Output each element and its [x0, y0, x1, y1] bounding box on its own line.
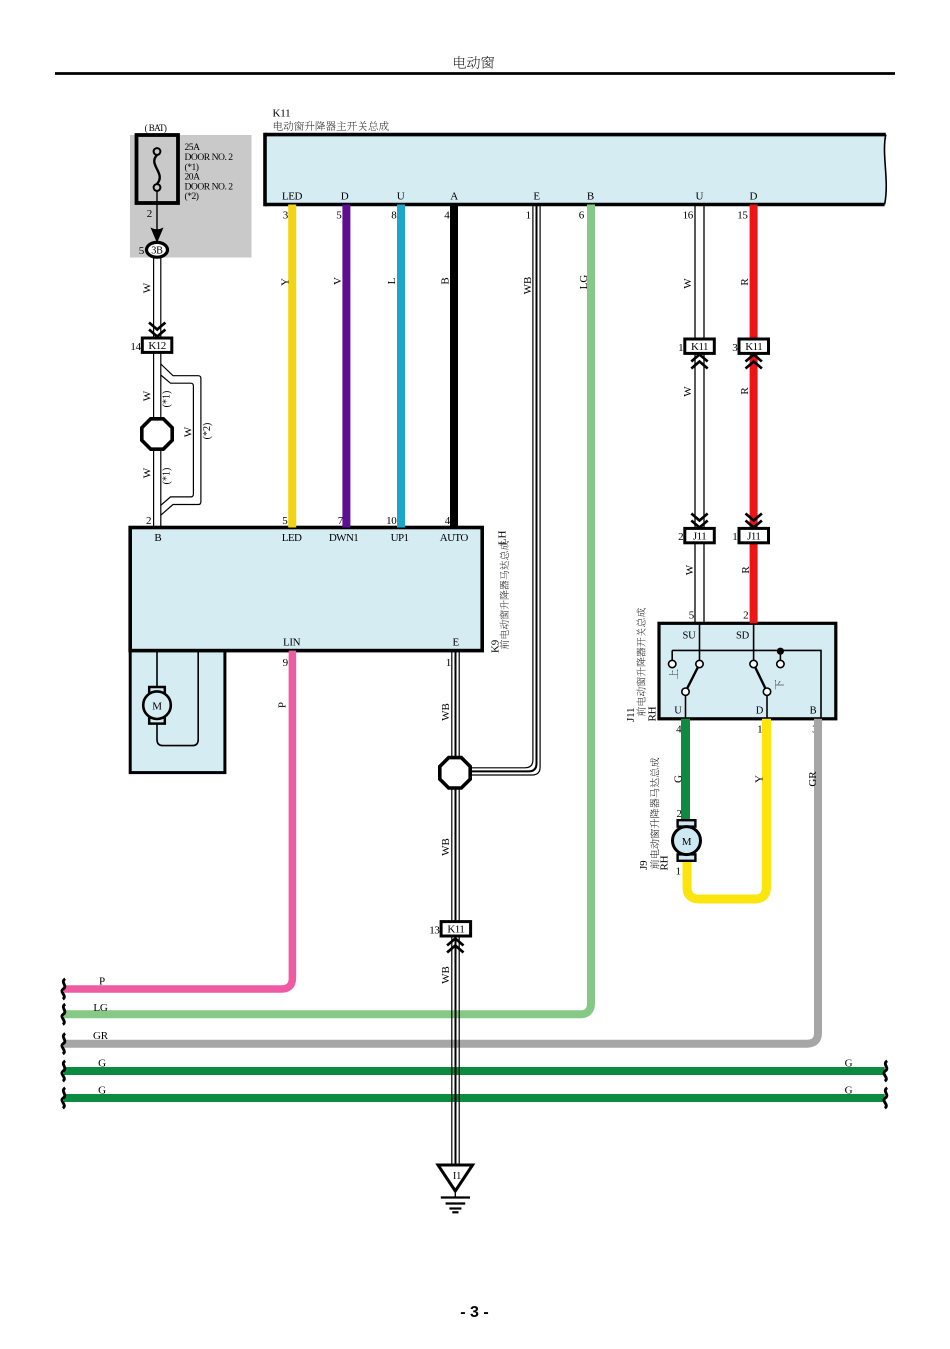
svg-text:SD: SD [736, 631, 750, 642]
svg-text:1: 1 [446, 657, 451, 669]
svg-text:13: 13 [429, 924, 440, 936]
svg-text:J11: J11 [625, 708, 637, 722]
svg-text:B: B [810, 706, 817, 717]
contact [750, 660, 757, 667]
svg-text:16: 16 [683, 210, 694, 222]
svg-text:- 3 -: - 3 - [460, 1304, 488, 1321]
svg-text:3B: 3B [151, 245, 163, 256]
D line [766, 692, 768, 719]
wire WB main vertical [451, 651, 453, 1165]
title 电动窗 [454, 56, 494, 69]
svg-text:(*2): (*2) [202, 423, 213, 440]
svg-text:L: L [386, 277, 398, 284]
SU line [699, 623, 701, 664]
svg-text:GR: GR [93, 1030, 109, 1042]
svg-text:3: 3 [732, 342, 738, 354]
wire GR [64, 719, 818, 1044]
svg-text:Y: Y [753, 775, 765, 783]
svg-text:(*1): (*1) [162, 391, 173, 408]
svg-text:K11: K11 [273, 108, 291, 120]
svg-text:D: D [756, 706, 764, 717]
svg-text:1: 1 [678, 342, 683, 354]
svg-text:6: 6 [579, 210, 585, 222]
svg-text:V: V [332, 277, 344, 285]
svg-text:M: M [152, 701, 162, 713]
svg-text:15: 15 [737, 210, 748, 222]
switch assy K11 box [265, 135, 886, 205]
label 下 [775, 680, 784, 690]
svg-text:2: 2 [676, 808, 681, 820]
svg-text:LH: LH [497, 530, 509, 545]
svg-text:W: W [183, 426, 195, 437]
wire B AUTO [450, 205, 458, 528]
svg-text:E: E [453, 637, 460, 649]
ground bars [441, 1196, 470, 1198]
svg-text:B: B [154, 532, 161, 544]
svg-text:J9: J9 [638, 860, 650, 870]
svg-text:G: G [98, 1085, 106, 1097]
svg-text:WB: WB [440, 838, 452, 856]
contact [682, 688, 689, 695]
svg-text:WB: WB [522, 277, 534, 295]
svg-text:K9: K9 [490, 639, 502, 653]
svg-text:LIN: LIN [283, 637, 301, 649]
break symbol left y1098 [62, 1088, 65, 1108]
wire V DWN1 [342, 205, 350, 528]
svg-text:K11: K11 [447, 924, 464, 936]
svg-text:W: W [141, 467, 153, 478]
arrowhead [151, 228, 164, 244]
noise filter mid [440, 758, 470, 788]
wire W left (double) [153, 257, 155, 528]
svg-text:W: W [682, 278, 694, 289]
svg-text:8: 8 [391, 210, 397, 222]
svg-text:RH: RH [659, 855, 671, 870]
label 前电动窗升降器开关总成 [636, 608, 645, 716]
svg-text:K12: K12 [148, 340, 165, 352]
break symbol right y1098 [884, 1088, 887, 1108]
svg-text:SU: SU [682, 631, 696, 642]
battery feed gray area [130, 135, 252, 258]
svg-text:K11: K11 [745, 341, 762, 353]
J11 internal bus [672, 650, 821, 718]
svg-text:5: 5 [282, 515, 288, 527]
fuse element [154, 155, 159, 184]
svg-text:WB: WB [440, 703, 452, 721]
label 前电动窗升降器马达总成 LH [500, 541, 509, 649]
svg-text:B: B [587, 191, 594, 203]
label 电动窗升降器主开关总成 [274, 121, 389, 131]
connector 3 K11 [739, 339, 769, 353]
svg-text:D: D [341, 191, 349, 203]
svg-text:GR: GR [807, 771, 819, 787]
break symbol right y1071 [884, 1061, 887, 1081]
wire fuse to 3B [156, 191, 158, 233]
ground stub [454, 1191, 456, 1198]
svg-text:W: W [141, 390, 153, 401]
chevrons below 3K11 [746, 355, 762, 362]
svg-text:5: 5 [336, 210, 342, 222]
svg-text:LG: LG [93, 1002, 108, 1014]
junction dot [777, 648, 784, 655]
SD line [753, 623, 755, 664]
U line [685, 692, 687, 719]
svg-text:LED: LED [282, 532, 302, 544]
svg-text:1: 1 [757, 723, 762, 735]
svg-text:E: E [533, 191, 540, 203]
svg-text:G: G [845, 1058, 853, 1070]
svg-text:G: G [98, 1058, 106, 1070]
svg-text:M: M [682, 836, 692, 848]
break symbol left y1014.3 [62, 1004, 65, 1024]
J11 RH switch block [659, 623, 836, 719]
svg-text:2: 2 [146, 515, 151, 527]
wire L UP1 [397, 205, 405, 528]
svg-text:1: 1 [526, 210, 531, 222]
connector 1 J11 [739, 528, 769, 542]
svg-text:14: 14 [130, 341, 141, 353]
svg-text:U: U [674, 706, 682, 717]
contact [669, 660, 676, 667]
chevrons above 1J11 [746, 514, 762, 521]
wire WB from K11 E to filter [470, 205, 533, 768]
stub dot contact [779, 650, 781, 664]
chevrons above 2J11 [691, 514, 707, 521]
svg-text:4: 4 [444, 210, 450, 222]
break symbol left y989 [62, 979, 65, 999]
J9 LH main block [130, 528, 482, 651]
wire Y RH loop [687, 719, 767, 899]
svg-text:3: 3 [283, 210, 289, 222]
break symbol left y1043.7 [62, 1034, 65, 1054]
svg-text:W: W [684, 564, 696, 575]
svg-text:( BAT): ( BAT) [145, 123, 167, 133]
motor M LH [149, 687, 165, 693]
svg-text:4: 4 [445, 515, 451, 527]
wire G RH [681, 719, 690, 820]
svg-text:WB: WB [440, 966, 452, 984]
contact [763, 688, 770, 695]
connector 13 K11 [441, 922, 471, 936]
stub left contact [671, 650, 673, 664]
wire G horizontal 2 [64, 1094, 885, 1102]
wire W (*2) branch inner [161, 375, 194, 505]
svg-text:2: 2 [147, 208, 152, 220]
svg-text:D: D [750, 191, 758, 203]
svg-text:W: W [141, 282, 153, 293]
wire W right (double) [694, 205, 696, 624]
switch arm up [686, 664, 700, 692]
motor M LH wiring [156, 651, 158, 687]
svg-text:2: 2 [743, 610, 748, 622]
J9 LH motor sub-block [130, 651, 225, 773]
svg-text:RH: RH [647, 706, 659, 721]
svg-text:5: 5 [689, 610, 695, 622]
svg-text:U: U [696, 191, 704, 203]
noise filter left [142, 419, 172, 449]
svg-text:P: P [99, 976, 105, 988]
connector 2 J11 [685, 528, 715, 542]
wire LG [64, 205, 591, 1015]
svg-text:B: B [439, 277, 451, 284]
svg-text:Y: Y [279, 278, 291, 286]
svg-text:UP1: UP1 [391, 532, 409, 544]
svg-text:(*1): (*1) [162, 468, 173, 485]
svg-text:5: 5 [139, 245, 145, 257]
connector 3B [147, 242, 168, 257]
svg-text:2: 2 [678, 531, 683, 543]
svg-text:I1: I1 [453, 1171, 461, 1182]
wire G horizontal 1 [64, 1067, 885, 1075]
connector 1 K11 [685, 339, 715, 353]
switch arm down [754, 664, 767, 692]
svg-text:A: A [450, 191, 458, 203]
svg-text:R: R [739, 278, 751, 286]
svg-text:AUTO: AUTO [440, 532, 469, 544]
ground I1 triangle [438, 1165, 473, 1191]
svg-text:DWN1: DWN1 [329, 532, 358, 544]
svg-text:K11: K11 [691, 341, 708, 353]
svg-text:J11: J11 [747, 531, 760, 543]
wire Y LED [288, 205, 296, 528]
svg-text:G: G [845, 1085, 853, 1097]
svg-text:P: P [276, 702, 288, 708]
svg-text:9: 9 [283, 657, 289, 669]
label 上 [669, 669, 678, 679]
svg-text:U: U [397, 191, 405, 203]
wire W (*2) branch outer [161, 364, 201, 515]
connector 14 K12 [142, 338, 172, 352]
label 前电动窗升降器马达总成 RH [650, 758, 659, 869]
svg-text:10: 10 [386, 515, 397, 527]
svg-text:1: 1 [675, 865, 680, 877]
chevrons below 1K11 [691, 355, 707, 362]
wire P [64, 651, 292, 989]
svg-text:R: R [739, 387, 751, 395]
svg-text:G: G [672, 775, 684, 783]
svg-text:LED: LED [282, 191, 303, 203]
svg-text:1: 1 [732, 531, 737, 543]
svg-text:R: R [740, 566, 752, 574]
svg-text:LG: LG [578, 275, 590, 290]
header rule [55, 72, 895, 75]
svg-text:W: W [682, 386, 694, 397]
contact [777, 660, 784, 667]
fuse box [137, 135, 179, 203]
break symbol left y1071 [62, 1061, 65, 1081]
chevrons below 13K11 [447, 939, 463, 946]
svg-text:(*2): (*2) [185, 191, 199, 202]
wire R [750, 205, 758, 624]
contact [696, 660, 703, 667]
motor M RH [678, 820, 696, 826]
chevrons above K12 [149, 323, 165, 330]
svg-text:J11: J11 [693, 531, 706, 543]
